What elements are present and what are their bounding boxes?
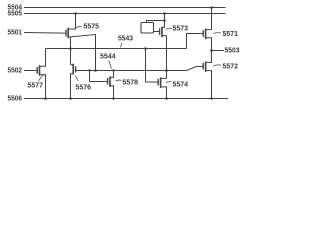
junction: 5576 drain on node 5543 xyxy=(69,47,72,50)
junction: 5573 drain on 5505 xyxy=(163,12,166,15)
junction: 5574 gate wire on node 5543 xyxy=(144,47,147,50)
wire: node 5543 up to gate of 5571 xyxy=(187,34,204,49)
wire 5502 to gate of 5577 xyxy=(24,70,37,72)
junction: 5577 source on 5506 xyxy=(44,97,47,100)
transistor 5578 channel bar xyxy=(109,76,111,87)
svg-text:5506: 5506 xyxy=(8,94,23,103)
transistor 5571 channel bar xyxy=(205,29,207,40)
svg-text:5505: 5505 xyxy=(8,9,23,18)
wire: 5571 drain up to 5504 rail xyxy=(206,8,212,30)
wire: 5571 source down to 5572 drain xyxy=(206,38,212,63)
wire: 5575 source down through node 5543 to drain of 5576 xyxy=(70,37,72,65)
svg-text:5578: 5578 xyxy=(123,77,139,86)
transistor 5571 gate bar xyxy=(202,30,204,37)
svg-text:5572: 5572 xyxy=(223,61,239,70)
wire: 5578 source down to 5506 xyxy=(110,86,114,99)
junction: 5578 source on 5506 xyxy=(112,97,115,100)
svg-text:5503: 5503 xyxy=(225,46,240,55)
leader for label 5575 xyxy=(76,26,82,28)
svg-text:5501: 5501 xyxy=(8,28,23,37)
transistor 5576 drain lead xyxy=(71,64,74,66)
wire: 5505 rail down to drain of 5573 xyxy=(162,14,165,28)
leader for label 5543 xyxy=(121,43,122,48)
wire: 5577 source down to 5506 xyxy=(40,75,46,99)
ground rail 5506 xyxy=(24,98,228,100)
transistor 5576 source lead and wire down to 5506 xyxy=(71,74,74,99)
transistor 5577 channel bar xyxy=(39,65,41,76)
leader for label 5544 xyxy=(109,60,112,68)
wire: 5574 drain up to node 5544 xyxy=(161,71,167,79)
junction: 5575 source drop on node 5544 xyxy=(94,69,97,72)
svg-text:5573: 5573 xyxy=(173,23,189,32)
wire: node 5544 down to gate of 5578 xyxy=(90,71,108,82)
transistor 5572 channel bar xyxy=(205,61,207,72)
leader for label 5573 xyxy=(166,28,172,29)
transistor 5575 gate bar xyxy=(65,30,67,37)
transistor 5577 gate bar xyxy=(36,67,38,74)
node 5544 horizontal line xyxy=(76,67,204,71)
junction: 5578 drain on node 5544 xyxy=(112,69,114,71)
transistor 5574 channel bar xyxy=(160,77,162,88)
junction: box wire on 5573 drain xyxy=(163,19,166,22)
svg-text:5502: 5502 xyxy=(8,65,23,74)
leader for label 5572 xyxy=(214,65,222,66)
transistor 5576 gate bar xyxy=(75,66,77,72)
leader for label 5574 xyxy=(166,82,172,83)
output wire 5503 xyxy=(212,50,225,52)
wire: 5573 source down to node 5544 xyxy=(162,36,167,71)
junction: 5575 drain on 5505 xyxy=(74,12,77,15)
junction: 5576 source on 5506 xyxy=(69,97,72,100)
junction: 5573 source on node 5544 xyxy=(165,69,168,72)
junction: 5572 source on 5506 xyxy=(210,97,213,100)
junction: 5578 gate drop on node 5544 xyxy=(88,69,90,71)
power rail 5504 xyxy=(24,7,226,9)
wire: source lead of 5575 xyxy=(68,36,70,38)
svg-text:5544: 5544 xyxy=(100,51,116,60)
wire: box top to 5573 drain node xyxy=(147,21,165,23)
leader for label 5571 xyxy=(214,33,222,34)
svg-text:5574: 5574 xyxy=(173,79,189,88)
wire: 5577 drain up to node 5543 xyxy=(40,49,46,67)
wire 5501 to gate of 5575 xyxy=(24,32,66,35)
wire: 5505 rail down to drain of 5575 xyxy=(68,14,75,30)
junction: 5571 drain on 5504 xyxy=(210,6,213,9)
wire: box to gate of 5573 xyxy=(154,31,160,33)
transistor 5575 channel bar xyxy=(67,28,69,39)
node 5543 horizontal line xyxy=(46,48,187,50)
junction: output 5503 on 5571 source xyxy=(210,49,213,52)
svg-text:5543: 5543 xyxy=(118,34,133,43)
svg-text:5575: 5575 xyxy=(84,22,100,31)
leader for label 5578 xyxy=(116,80,122,81)
transistor 5573 channel bar xyxy=(161,27,163,38)
wire: 5575 source over to node 5544 drop xyxy=(71,35,96,71)
transistor 5573 gate bar xyxy=(159,28,161,35)
transistor 5578 gate bar xyxy=(107,78,109,85)
wire: 5578 drain up to node 5544 xyxy=(110,71,114,78)
box component xyxy=(141,23,154,34)
wire: 5574 source down to 5506 xyxy=(161,87,167,99)
wire: node 5543 down to gate of 5574 xyxy=(146,49,159,83)
wire: 5572 source down to 5506 xyxy=(206,71,212,99)
svg-text:5571: 5571 xyxy=(223,29,239,38)
junction: 5574 source on 5506 xyxy=(165,97,168,100)
transistor 5572 gate bar xyxy=(202,63,204,70)
svg-text:5576: 5576 xyxy=(76,82,92,91)
leader for label 5576 xyxy=(76,76,79,81)
svg-text:5577: 5577 xyxy=(28,80,44,89)
transistor 5574 gate bar xyxy=(157,79,159,86)
leader for label 5577 xyxy=(39,74,45,81)
transistor 5576 channel bar xyxy=(72,64,74,75)
power rail 5505 xyxy=(24,13,226,15)
